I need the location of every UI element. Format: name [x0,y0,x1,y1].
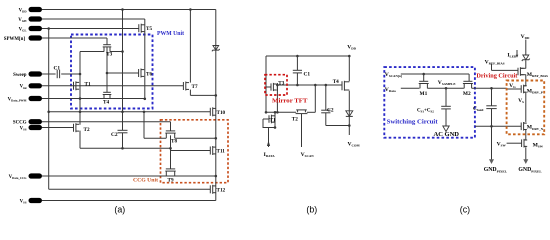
svg-text:SCCG: SCCG [13,121,27,126]
svg-text:T2: T2 [292,116,298,122]
svg-text:T6: T6 [146,72,152,78]
svg-text:VGH: VGH [18,18,27,23]
svg-text:Driving Circuit: Driving Circuit [476,74,517,80]
svg-text:M2: M2 [463,91,471,97]
svg-text:C2: C2 [111,132,118,138]
svg-text:T1: T1 [270,118,276,124]
svg-text:Mirror TFT: Mirror TFT [272,97,308,104]
svg-text:VSS: VSS [20,199,27,204]
svg-text:(a): (a) [114,204,125,214]
svg-text:T12: T12 [217,188,226,194]
svg-text:T1: T1 [85,82,91,88]
svg-text:VData_CCG: VData_CCG [9,175,28,180]
svg-text:VData_PWM: VData_PWM [8,97,27,102]
svg-text:T2: T2 [84,127,90,133]
svg-text:C1: C1 [304,72,311,78]
svg-text:T9: T9 [168,177,174,183]
svg-text:T3: T3 [106,52,112,58]
svg-text:CCG Unit: CCG Unit [133,177,158,183]
svg-text:Switching Circuit: Switching Circuit [387,119,438,125]
svg-text:T7: T7 [192,84,198,90]
svg-text:T4: T4 [333,79,339,85]
svg-text:T8: T8 [171,139,177,145]
svg-text:Sweep: Sweep [13,73,27,78]
svg-text:(b): (b) [306,204,317,214]
svg-text:VGL: VGL [19,27,27,32]
svg-text:Vini: Vini [20,85,27,90]
svg-text:T11: T11 [217,149,226,155]
svg-text:(c): (c) [460,204,470,214]
svg-text:M1: M1 [420,91,428,97]
svg-text:T5: T5 [146,26,152,32]
svg-text:T3: T3 [278,81,284,87]
svg-text:T4: T4 [103,100,109,106]
svg-text:VDD: VDD [19,8,28,13]
svg-text:C1: C1 [54,66,61,72]
svg-text:SPWM[n]: SPWM[n] [4,37,26,42]
svg-text:VSS: VSS [20,126,27,131]
svg-text:C2: C2 [327,108,334,114]
svg-text:T10: T10 [217,110,226,116]
svg-text:AC GND: AC GND [434,132,460,138]
svg-text:CS1+CS2: CS1+CS2 [417,109,434,114]
svg-text:PWM Unit: PWM Unit [157,31,184,37]
